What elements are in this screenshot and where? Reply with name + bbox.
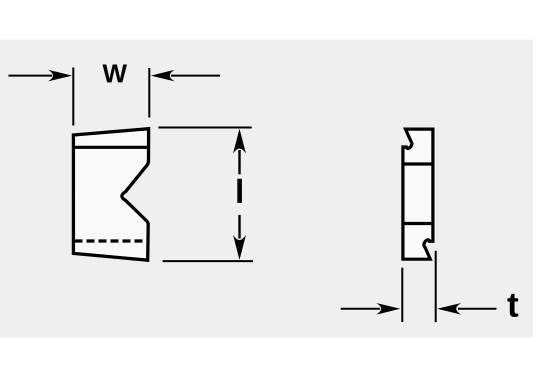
gray drawing panel: [0, 40, 533, 338]
dimension l: lower arrowhead: [233, 235, 246, 260]
dimension l: top extension line: [158, 127, 251, 129]
front view outline: [73, 129, 148, 261]
dimension t: right extension line: [435, 251, 437, 322]
dimension W: left arrowhead: [48, 70, 72, 82]
side view outline: [403, 129, 433, 259]
label t: [507, 294, 518, 317]
side view lower face line: [403, 222, 433, 225]
dimension t: right leader line: [458, 308, 497, 310]
dimension l: upper arrowhead: [233, 129, 246, 154]
dimension l: lower shaft: [238, 215, 240, 239]
dimension W: right leader line: [171, 75, 220, 77]
side view upper face line: [403, 162, 433, 165]
dimension t: left leader line: [341, 308, 380, 310]
dimension t: right arrowhead: [437, 303, 461, 315]
front view dashed line: [75, 239, 148, 242]
dimension t: left extension line: [401, 268, 403, 322]
dimension W: right extension line: [148, 68, 150, 118]
label l: [237, 179, 242, 203]
dimension l: bottom extension line: [163, 260, 253, 262]
dimension W: left leader line: [9, 75, 53, 77]
label W: [102, 65, 126, 83]
dimension W: left extension line: [72, 68, 74, 126]
dimension t: left arrowhead: [376, 303, 400, 315]
front view top face line: [73, 146, 148, 149]
dimension l: upper shaft: [238, 150, 240, 174]
dimension W: right arrowhead: [151, 70, 175, 82]
